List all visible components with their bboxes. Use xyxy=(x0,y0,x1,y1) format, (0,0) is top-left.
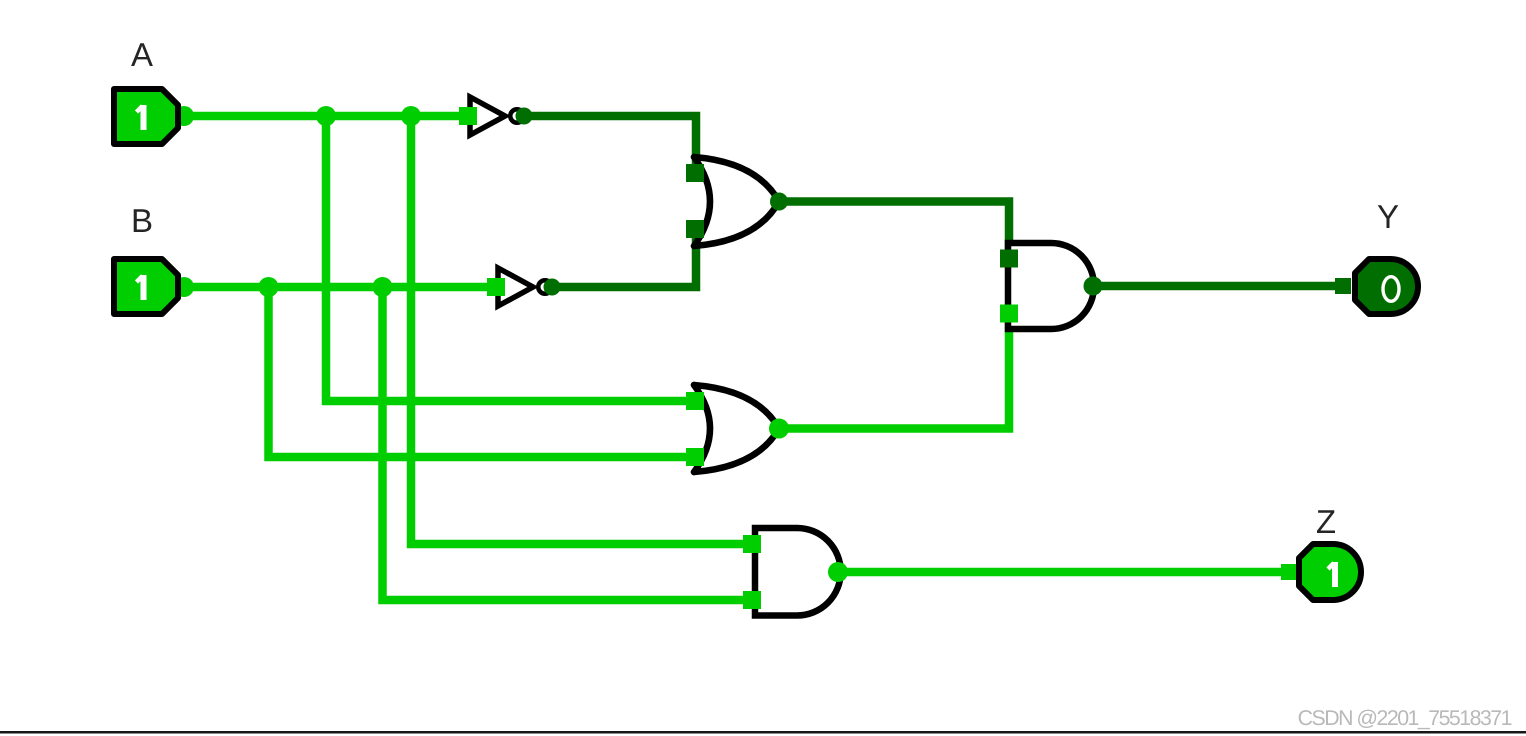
OR1 output value dot (0) xyxy=(770,193,788,211)
wire riser B2: from junction on B down and right to AND3 lower input xyxy=(383,287,753,600)
pin A value glyph (1) xyxy=(137,105,144,130)
input pin B output nub xyxy=(174,277,194,297)
junction dot on wire B at riser B2 xyxy=(373,277,393,297)
label Z xyxy=(1317,510,1335,533)
wire OR2 output to AND2 lower input (logic 1) xyxy=(779,314,1009,429)
label Y xyxy=(1378,205,1399,228)
label A xyxy=(131,43,153,66)
NOT gate U2 body xyxy=(498,268,552,306)
OR gate U4 body xyxy=(694,385,779,472)
port square OR1 input 1 xyxy=(686,164,704,182)
port square OR2 input 2 xyxy=(686,448,704,466)
port square NOT2 input xyxy=(487,278,505,296)
wire riser B1: from junction on B down and right to OR2 lower input xyxy=(269,287,696,457)
port square AND2 input 2 xyxy=(1000,305,1018,323)
NOT gate U1 body xyxy=(470,97,524,135)
port square AND3 input 1 xyxy=(743,535,761,553)
pin B value glyph (1) xyxy=(137,275,144,300)
AND gate U5 body xyxy=(1008,243,1094,329)
input pin A output nub xyxy=(174,106,194,126)
bottom border line xyxy=(0,731,1526,734)
port square AND2 input 1 xyxy=(1000,250,1018,268)
OR gate U3 body xyxy=(694,157,779,246)
port square NOT1 input xyxy=(459,107,477,125)
junction dot on wire A at riser A1 xyxy=(316,106,336,126)
NOT2 output value dot (0) xyxy=(544,279,561,296)
wire B horizontal from pin B to NOT2 input xyxy=(186,283,496,292)
wire AND2 output to pin Y (logic 0) xyxy=(1093,282,1348,291)
output pin Y body xyxy=(1355,259,1418,314)
wire NOT1 output to OR1 upper input (logic 0) xyxy=(524,116,696,173)
port square AND3 input 2 xyxy=(743,591,761,609)
port square pin Z input xyxy=(1281,564,1297,580)
junction dot on wire B at riser B1 xyxy=(259,277,279,297)
AND gate U6 body xyxy=(755,528,841,616)
input pin B body xyxy=(114,259,178,314)
output pin Z body xyxy=(1299,544,1361,600)
junction dot on wire A at riser A2 xyxy=(401,106,421,126)
AND3 output value dot (1) xyxy=(828,562,848,582)
label B xyxy=(134,209,152,232)
wire riser A1: from junction on A down and right to OR2 upper input xyxy=(326,116,695,401)
AND2 output value dot (0) xyxy=(1084,277,1103,296)
port square OR1 input 2 xyxy=(686,220,704,238)
wire AND3 output to pin Z (logic 1) xyxy=(838,568,1292,577)
OR2 output value dot (1) xyxy=(769,419,789,439)
input pin A body xyxy=(114,89,178,144)
wire A horizontal from pin A to NOT1 input xyxy=(186,112,468,121)
NOT1 output value dot (0) xyxy=(516,108,533,125)
pin Y value glyph (0) xyxy=(1383,277,1399,302)
svg-text:CSDN @2201_75518371: CSDN @2201_75518371 xyxy=(1298,706,1512,730)
wire NOT2 output to OR1 lower input (logic 0) xyxy=(552,229,696,287)
wire OR1 output to AND2 upper input (logic 0) xyxy=(779,202,1009,259)
port square OR2 input 1 xyxy=(686,392,704,410)
pin Z value glyph (1) xyxy=(1328,562,1335,587)
port square pin Y input xyxy=(1335,278,1351,294)
wire riser A2: from junction on A down and right to AND3 upper input xyxy=(411,116,752,544)
